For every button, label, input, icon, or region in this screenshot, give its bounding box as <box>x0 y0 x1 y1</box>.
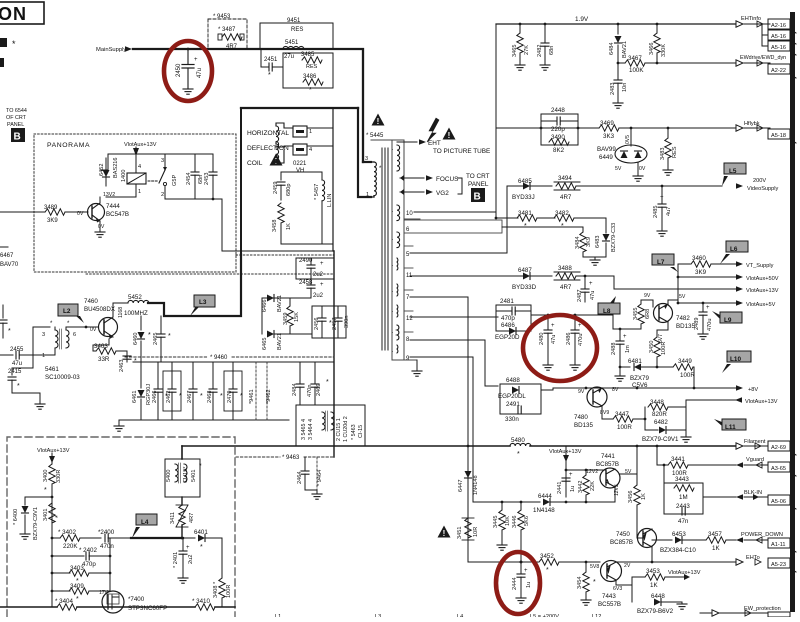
svg-text:1 CU20d 2: 1 CU20d 2 <box>343 416 349 442</box>
svg-text:BC857B: BC857B <box>610 539 633 546</box>
svg-text:100MHZ: 100MHZ <box>124 310 148 317</box>
capacitor 2462 <box>163 362 182 420</box>
capacitor 2490 2u2 <box>296 258 334 279</box>
svg-text:4R7: 4R7 <box>560 284 572 291</box>
resistor 3449 100R <box>656 358 696 388</box>
svg-text:BAV21: BAV21 <box>277 295 283 312</box>
svg-text:L7: L7 <box>657 259 665 266</box>
ground 3484 6483 <box>590 260 600 265</box>
box 3443 1M 2443 47n <box>664 465 703 525</box>
net POWER_DOWN <box>736 532 783 543</box>
svg-text:3442: 3442 <box>578 481 584 493</box>
svg-text:3456: 3456 <box>628 491 634 503</box>
svg-text:68n: 68n <box>549 46 555 55</box>
svg-text:EGP20D: EGP20D <box>495 334 520 341</box>
svg-text:1: 1 <box>42 353 45 359</box>
svg-text:3K9: 3K9 <box>586 237 592 247</box>
svg-text:.: . <box>392 146 393 152</box>
svg-text:100R: 100R <box>617 424 632 431</box>
connector A5-18 <box>768 129 796 143</box>
svg-text:2441: 2441 <box>557 482 563 494</box>
svg-text:3484: 3484 <box>575 237 581 249</box>
svg-text:*: * <box>220 393 223 400</box>
resistor 3451 10R <box>457 518 479 540</box>
resistor 3442 22K <box>578 469 596 502</box>
svg-text:3 5465 4: 3 5465 4 <box>301 419 307 440</box>
svg-text:L8: L8 <box>603 308 611 315</box>
svg-text:VlotAux+50V: VlotAux+50V <box>746 276 779 282</box>
svg-text:330R: 330R <box>56 470 62 483</box>
svg-text:* 9460: * 9460 <box>210 355 228 361</box>
transistor 7443 BC557B <box>590 561 647 609</box>
svg-text:3483: 3483 <box>660 148 666 160</box>
resistor 3456 1K <box>628 446 647 538</box>
zener 6448 BZX79-B6V2 <box>637 593 687 615</box>
inductor 5480 <box>510 437 531 458</box>
svg-text:6467: 6467 <box>0 253 14 259</box>
capacitor 2468 <box>207 362 223 420</box>
svg-text:6: 6 <box>73 332 76 338</box>
svg-text:COIL: COIL <box>247 160 263 167</box>
resistor 3441 100R <box>657 456 736 477</box>
svg-text:3455: 3455 <box>633 308 639 320</box>
svg-text:* 6400: * 6400 <box>13 509 19 525</box>
svg-text:470n: 470n <box>100 543 114 550</box>
resistor 3455 6R8 <box>633 300 651 329</box>
bottom edge labels <box>275 614 601 620</box>
pin 8 <box>404 332 485 343</box>
svg-text:3408 *: 3408 * <box>213 581 219 598</box>
node box left <box>540 127 543 130</box>
net Filament <box>736 439 768 449</box>
svg-text:ON: ON <box>0 4 27 24</box>
capacitor 2459 680p <box>273 172 292 200</box>
svg-text:.: . <box>392 329 393 335</box>
transformer 5461 SC10009-03 <box>0 321 98 381</box>
svg-text:L2: L2 <box>63 308 71 315</box>
svg-text:47u: 47u <box>197 68 203 78</box>
dashed box PANORAMA <box>34 134 236 272</box>
capacitor 2448 220p <box>541 107 578 133</box>
svg-text:VideoSupply: VideoSupply <box>747 186 779 192</box>
net EHTo <box>647 555 768 565</box>
TO CRT PANEL note <box>458 173 490 194</box>
resistor 3410 <box>192 598 235 610</box>
connector A2-22 <box>768 64 796 78</box>
svg-text:.: . <box>392 308 393 314</box>
svg-text:10: 10 <box>406 211 413 217</box>
svg-text:HORIZONTAL: HORIZONTAL <box>247 130 289 137</box>
transistor 7480 BD135 <box>574 387 619 429</box>
resistor 3489 3K9 <box>0 205 88 224</box>
diode fragment left edge <box>0 246 8 248</box>
svg-text:2u2: 2u2 <box>313 272 324 278</box>
svg-text:VlotAux+5V: VlotAux+5V <box>746 302 776 308</box>
svg-text:2464: 2464 <box>297 472 303 484</box>
svg-text:BZX79-C9V1: BZX79-C9V1 <box>33 507 39 540</box>
svg-text:STP3NC60FP: STP3NC60FP <box>128 605 167 612</box>
svg-text:RES: RES <box>306 64 318 70</box>
ground 2485 <box>657 231 667 236</box>
highlight ellipse 3 <box>496 552 540 614</box>
svg-text:*9461: *9461 <box>249 389 255 404</box>
net 0V5 <box>625 127 632 146</box>
wire rail y362 <box>133 361 334 363</box>
svg-text:3: 3 <box>365 156 368 162</box>
svg-text:4: 4 <box>309 147 312 153</box>
svg-text:100R: 100R <box>661 342 667 355</box>
dashed box 9453 <box>208 19 247 49</box>
svg-text:2457: 2457 <box>332 318 338 330</box>
net pin12 caps row <box>531 314 641 329</box>
title block ON <box>0 2 44 24</box>
svg-text:A5-23: A5-23 <box>771 562 786 568</box>
label HORIZONTAL DEFLECTION COIL <box>247 130 289 167</box>
capacitor 2487 47u <box>577 275 596 302</box>
svg-text:7482: 7482 <box>676 315 690 322</box>
transistor 7441 BC857B <box>565 453 637 502</box>
ground 2450 <box>183 89 193 94</box>
svg-text:A5-16: A5-16 <box>771 34 786 40</box>
ground 2464 <box>312 494 322 499</box>
wire thick primary pin3 <box>363 161 371 163</box>
svg-text:BAV70: BAV70 <box>0 262 19 268</box>
box 2456 2457 <box>290 306 350 338</box>
pin 7 <box>404 290 468 301</box>
wire BAV block rails <box>262 298 311 334</box>
capacitor 2467 <box>187 362 203 420</box>
resistor 3482 <box>554 210 606 230</box>
svg-text:8V: 8V <box>612 387 619 393</box>
node MainSupply/2450 <box>187 48 190 51</box>
warning triangle EHT <box>443 128 456 141</box>
capacitor 2454 68n <box>186 154 204 199</box>
ground 2482 <box>540 65 550 70</box>
zener 6481 BZX79-C5V6 <box>619 358 657 389</box>
transistor 7444 BC547B <box>77 197 129 231</box>
dashed net 9460 <box>125 355 334 361</box>
resistor 3488 4R7 <box>554 265 614 291</box>
svg-text:VT_Supply: VT_Supply <box>746 263 774 269</box>
svg-text:G5P: G5P <box>172 175 178 186</box>
svg-text:L9: L9 <box>724 317 732 324</box>
svg-text:390n: 390n <box>344 316 350 328</box>
svg-text:2444: 2444 <box>512 578 518 590</box>
svg-text:*7400: *7400 <box>128 596 145 603</box>
svg-text:470u: 470u <box>578 334 584 346</box>
svg-text:*9462: *9462 <box>266 389 272 404</box>
ground 3483 <box>663 170 673 175</box>
wire solid y251 <box>222 250 334 252</box>
connector A5-16 b <box>762 41 796 55</box>
svg-text:L10: L10 <box>730 356 741 363</box>
connector A1-11 <box>768 538 796 552</box>
svg-text:L4: L4 <box>141 519 149 526</box>
svg-text:BAV99: BAV99 <box>597 146 616 153</box>
flag L8 <box>598 296 620 315</box>
ground 3465 <box>515 65 525 70</box>
net Hflybk <box>736 121 770 131</box>
switch G5P <box>148 154 178 199</box>
svg-text:A2-16: A2-16 <box>771 23 786 29</box>
svg-text:6483: 6483 <box>595 236 601 248</box>
svg-text:*: * <box>546 567 549 574</box>
resistor 3466 330K <box>649 23 667 63</box>
svg-text:3K9: 3K9 <box>47 218 58 224</box>
pin 11 <box>404 268 516 279</box>
svg-text:22K: 22K <box>590 481 596 491</box>
svg-text:6482: 6482 <box>654 419 668 426</box>
svg-text:1m: 1m <box>625 345 631 353</box>
svg-text:.: . <box>392 262 393 268</box>
diode 6461 RGP30J <box>132 362 152 420</box>
svg-text:1: 1 <box>138 189 141 195</box>
diode 6484 BAV21 <box>609 23 628 63</box>
pin 6 <box>404 220 583 233</box>
ground 7444 emitter <box>95 232 105 237</box>
transformer secondary windings <box>397 145 400 353</box>
svg-text:B: B <box>14 132 21 143</box>
svg-text:VG2: VG2 <box>436 190 449 197</box>
svg-text:BD135: BD135 <box>676 323 695 330</box>
resistor 3400 330R <box>43 461 62 540</box>
note TO 6544 OF CRT PANEL <box>6 108 27 128</box>
net VT_Supply <box>736 261 774 269</box>
dashed net 9463 <box>236 455 334 461</box>
svg-text:9451: 9451 <box>287 18 301 24</box>
box 9451 RES <box>260 23 333 49</box>
svg-text:VlotAux+13V: VlotAux+13V <box>746 288 779 294</box>
wire box internal top <box>281 171 322 173</box>
svg-text:3443: 3443 <box>675 476 689 483</box>
resistor 3458 1K <box>272 203 333 244</box>
svg-text:2451: 2451 <box>264 57 278 63</box>
svg-text:.: . <box>392 288 393 294</box>
left edge capacitor fragment <box>0 305 11 338</box>
svg-text:3458: 3458 <box>272 220 278 232</box>
title fragment glyph2 <box>0 58 4 67</box>
svg-text:L3: L3 <box>199 299 207 306</box>
diode 6444 1N4148 <box>533 493 615 514</box>
svg-text:RES: RES <box>672 146 678 158</box>
resistor 3401 <box>43 503 62 523</box>
svg-text:1u: 1u <box>526 582 532 588</box>
capacitor 2486 470u <box>566 315 584 370</box>
svg-text:+: + <box>524 568 528 574</box>
svg-text:100R: 100R <box>226 585 232 598</box>
resistor 3453 1K <box>632 568 701 589</box>
box 2448 3490 <box>541 114 578 145</box>
coil plug 4 <box>293 144 312 155</box>
capacitor 2400 470n <box>98 529 131 550</box>
svg-text:820R: 820R <box>652 411 667 418</box>
svg-text:2454: 2454 <box>186 173 192 185</box>
resistor 3409 <box>52 583 110 603</box>
capacitor 2465 <box>153 316 171 362</box>
net VlotAux+50V <box>620 274 779 282</box>
svg-text:A2-22: A2-22 <box>771 68 786 74</box>
svg-text:L.LIN: L.LIN <box>327 194 333 207</box>
svg-text:6449: 6449 <box>599 154 613 161</box>
svg-text:2480: 2480 <box>539 333 545 345</box>
svg-text:+: + <box>706 305 710 311</box>
svg-text:2459: 2459 <box>273 182 279 194</box>
wire pin8 drop x485 <box>485 340 498 386</box>
wire thick primary pin1 <box>358 108 371 197</box>
svg-text:BZX384-C10: BZX384-C10 <box>660 547 696 554</box>
svg-text:9V: 9V <box>578 389 585 395</box>
wire relay top rail <box>108 153 213 155</box>
svg-text:220K: 220K <box>63 543 78 550</box>
svg-text:BC557B: BC557B <box>598 601 621 608</box>
capacitor 2464 <box>297 457 309 490</box>
svg-text:4R7: 4R7 <box>189 513 195 523</box>
wire Hflybk rail y128 <box>496 127 599 129</box>
flag L5 <box>722 163 746 186</box>
resistor 3481 <box>517 210 555 230</box>
wire 5461 pin1 <box>33 354 55 356</box>
svg-text:*: * <box>55 515 62 518</box>
svg-text:6460: 6460 <box>133 333 139 345</box>
resistor 3460 3K9 <box>678 255 736 276</box>
svg-text:4R7: 4R7 <box>560 194 572 201</box>
resistor 3408 100R <box>213 578 232 607</box>
net VlotAux+13V return <box>686 397 778 405</box>
capacitor 2402 470p <box>52 547 110 568</box>
svg-text:BZX79: BZX79 <box>630 375 649 382</box>
svg-text:6448: 6448 <box>651 593 665 600</box>
svg-text:680p: 680p <box>286 184 292 196</box>
flag L9 <box>712 311 742 324</box>
svg-text:1: 1 <box>366 192 369 198</box>
svg-text:* 3402: * 3402 <box>58 529 76 536</box>
svg-text:PANEL: PANEL <box>7 122 24 128</box>
connector A2-16 <box>768 19 796 33</box>
svg-text:3451: 3451 <box>457 527 463 539</box>
svg-text:+: + <box>660 195 664 201</box>
wire emitter down <box>112 337 114 351</box>
svg-text:10K: 10K <box>505 516 511 526</box>
svg-text:BAS216: BAS216 <box>113 157 119 178</box>
svg-text:1K: 1K <box>712 545 720 552</box>
svg-text:0V: 0V <box>639 166 646 172</box>
svg-text:* 2402: * 2402 <box>79 547 97 554</box>
svg-text:2455: 2455 <box>10 347 24 353</box>
flag L4 <box>132 514 157 538</box>
svg-text:A5-18: A5-18 <box>771 133 786 139</box>
capacitor 2453 <box>204 154 217 200</box>
svg-text:6484: 6484 <box>609 43 615 55</box>
resistor 3487 4R7 <box>218 27 244 50</box>
resistor 3484 3K9 <box>575 227 592 257</box>
svg-text:*: * <box>593 579 596 586</box>
svg-text:2463: 2463 <box>119 360 125 372</box>
svg-text:3401: 3401 <box>43 509 49 521</box>
svg-text:6488: 6488 <box>506 377 520 384</box>
svg-text:10n: 10n <box>622 83 628 92</box>
svg-text:* 9453: * 9453 <box>213 14 231 20</box>
svg-text:CU15*: CU15* <box>183 466 189 483</box>
resistor 3446 5K6 <box>512 501 530 562</box>
svg-text:1400: 1400 <box>121 170 127 182</box>
svg-text:2488: 2488 <box>611 343 617 355</box>
transformer secondary outline <box>371 140 404 360</box>
svg-text:*: * <box>168 333 171 340</box>
svg-text:*: * <box>44 487 47 494</box>
svg-text:2470: 2470 <box>227 391 233 403</box>
svg-text:5V: 5V <box>615 166 622 172</box>
svg-text:+: + <box>320 282 324 288</box>
svg-text:7441: 7441 <box>601 453 615 460</box>
svg-text:BD135: BD135 <box>574 422 593 429</box>
svg-text:100K: 100K <box>629 67 644 74</box>
pin 10 <box>404 211 496 219</box>
svg-text:470p: 470p <box>82 561 96 568</box>
svg-text:10R: 10R <box>473 527 479 537</box>
svg-text:6486: 6486 <box>501 322 515 329</box>
svg-text:6V3: 6V3 <box>613 586 622 592</box>
resistor 3490 8K2 <box>549 134 569 154</box>
svg-text:B: B <box>474 192 481 203</box>
svg-text:*: * <box>179 393 182 400</box>
svg-text:3449: 3449 <box>678 358 692 365</box>
svg-text:BYD33D: BYD33D <box>512 284 537 291</box>
svg-text:470p: 470p <box>501 315 515 322</box>
resistor 3445 10K <box>493 501 511 551</box>
svg-text:7444: 7444 <box>106 203 120 210</box>
svg-text:L11: L11 <box>725 424 736 431</box>
svg-text:*: * <box>148 332 151 339</box>
resistor 3454 <box>577 562 596 605</box>
svg-text:2489: 2489 <box>694 318 700 330</box>
svg-text:* 3404: * 3404 <box>55 598 73 605</box>
svg-text:3445: 3445 <box>493 516 499 528</box>
svg-text:3494: 3494 <box>558 175 572 182</box>
svg-text:+: + <box>186 545 190 551</box>
svg-text:VH: VH <box>296 168 304 174</box>
svg-text:.: . <box>392 208 393 214</box>
wire node column x678 <box>677 264 680 304</box>
svg-text:BU4508DX: BU4508DX <box>84 306 115 313</box>
connector B symbol CRT <box>471 188 485 203</box>
wire rail y420 <box>119 419 289 421</box>
net VlotAux+13V tap <box>549 446 582 497</box>
svg-text:*: * <box>517 451 520 458</box>
svg-text:DEFLECTION: DEFLECTION <box>247 145 289 152</box>
svg-text:*: * <box>240 393 243 400</box>
resistor 3467 100K <box>617 55 736 74</box>
resistor 3483 RES <box>660 127 678 169</box>
svg-text:2465: 2465 <box>153 333 159 345</box>
flag L3 <box>190 295 215 316</box>
svg-text:+8V: +8V <box>748 387 758 393</box>
svg-text:6401: 6401 <box>194 529 208 536</box>
resistor 3463 33R <box>93 334 127 363</box>
resistor 3459 15K <box>283 298 300 334</box>
flag L6 <box>720 241 748 264</box>
svg-text:0V: 0V <box>98 224 105 230</box>
svg-text:*: * <box>309 87 312 94</box>
svg-text:3465: 3465 <box>512 45 518 57</box>
svg-text:2u2: 2u2 <box>188 555 194 564</box>
dashed net 9462 <box>266 362 272 420</box>
svg-text:4: 4 <box>138 164 141 170</box>
title fragment glyph <box>0 38 7 47</box>
svg-text:2462: 2462 <box>166 391 172 403</box>
svg-text:1: 1 <box>309 129 312 135</box>
svg-text:0221: 0221 <box>293 161 307 167</box>
svg-text:+: + <box>551 323 555 329</box>
